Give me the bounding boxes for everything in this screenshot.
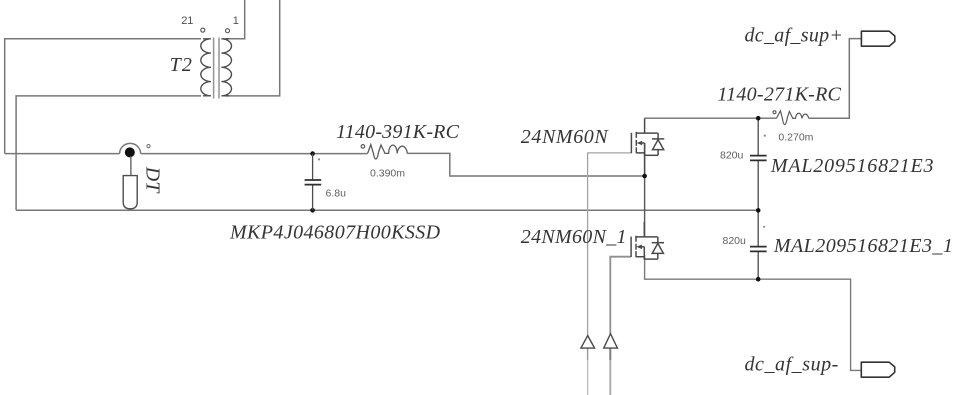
port dc_af_sup+ tag — [861, 31, 894, 46]
node junction dot cap midpoint — [756, 208, 761, 213]
svg-text:24NM60N_1: 24NM60N_1 — [521, 226, 627, 248]
svg-text:dc_af_sup+: dc_af_sup+ — [745, 25, 844, 47]
wire top-left from T2 pin 21 — [5, 39, 201, 154]
capacitor C3 polarity mark — [763, 226, 765, 228]
svg-text:dc_af_sup-: dc_af_sup- — [745, 354, 839, 376]
wire lower-left from T2 secondary bottom — [16, 96, 201, 210]
node junction dot cap C1 bottom — [310, 208, 315, 213]
svg-text:MKP4J046807H00KSSD: MKP4J046807H00KSSD — [229, 221, 441, 243]
svg-text:820u: 820u — [720, 149, 744, 161]
wire inductor L1 to step down to half-bridge midpoint — [407, 153, 644, 176]
svg-text:1140-391K-RC: 1140-391K-RC — [336, 121, 460, 143]
capacitor C1 plates — [305, 180, 322, 185]
svg-text:MAL209516821E3_1: MAL209516821E3_1 — [773, 235, 953, 257]
node junction dot bottom rail — [756, 277, 761, 282]
wire Q1 source to midpoint — [644, 155, 646, 176]
current probe DT hump — [120, 143, 141, 153]
svg-text:6.8u: 6.8u — [326, 188, 347, 200]
svg-text:24NM60N: 24NM60N — [521, 126, 610, 148]
wire gate drive Q2 — [610, 257, 631, 334]
transformer T2 — [201, 39, 232, 96]
wire T2 pin 1 up — [226, 0, 245, 39]
svg-text:820u: 820u — [723, 235, 747, 247]
current probe DT stem — [130, 156, 132, 176]
current probe polarity circle — [147, 145, 150, 148]
wire top rail Q1 drain to L2 node — [645, 117, 777, 119]
svg-text:DT: DT — [141, 166, 163, 194]
inductor L2 polarity circle — [773, 111, 776, 114]
svg-text:T2: T2 — [170, 54, 194, 76]
wire main line y153 probe to inductor — [141, 153, 368, 155]
wire main line y153 left of probe — [5, 153, 120, 155]
current probe DT body — [123, 176, 137, 209]
wire Q2 source down and bottom rail to dc_af_sup- port — [645, 255, 862, 370]
svg-text:MAL209516821E3: MAL209516821E3 — [770, 155, 934, 177]
inductor L1 1140-391K-RC — [368, 145, 408, 159]
node junction dot midpoint — [642, 174, 647, 179]
inductor L2 1140-271K-RC — [776, 111, 808, 125]
transformer polarity dot right — [226, 29, 230, 33]
capacitor C2 polarity mark — [764, 135, 766, 137]
port dc_af_sup- tag — [861, 362, 894, 377]
inductor L1 polarity circle — [361, 145, 365, 149]
svg-text:0.270m: 0.270m — [778, 132, 813, 144]
capacitor C1 6.8u vertical leads — [312, 154, 314, 211]
svg-text:1: 1 — [233, 15, 239, 27]
wire T2 secondary bottom-right up — [226, 0, 280, 96]
node junction dot top rail / L2 — [756, 116, 761, 121]
node junction dot cap C1 top — [310, 151, 315, 156]
wire bottom rail to cap midpoint — [16, 209, 758, 211]
mosfet Q1 24NM60N — [631, 118, 664, 156]
transformer core — [214, 38, 219, 99]
capacitor C2 820u plates — [750, 156, 767, 161]
svg-text:21: 21 — [181, 15, 193, 27]
gate port triangle Q2 — [604, 334, 618, 348]
mosfet Q2 24NM60N_1 — [631, 222, 664, 260]
svg-text:0.390m: 0.390m — [370, 167, 405, 179]
gate port triangle Q1 — [581, 336, 595, 349]
wire gate drive Q1 — [588, 153, 632, 336]
svg-text:1140-271K-RC: 1140-271K-RC — [717, 84, 841, 106]
transformer polarity dot left — [201, 28, 205, 32]
wire capacitor string vertical — [757, 118, 759, 155]
wire L2 to dc_af_sup+ port — [809, 39, 862, 119]
current probe DT dot — [125, 147, 135, 157]
capacitor C3 820u plates — [750, 247, 767, 252]
wire half-bridge vertical Q1 source to Q2 drain — [644, 143, 646, 237]
capacitor C1 polarity mark — [318, 158, 320, 160]
